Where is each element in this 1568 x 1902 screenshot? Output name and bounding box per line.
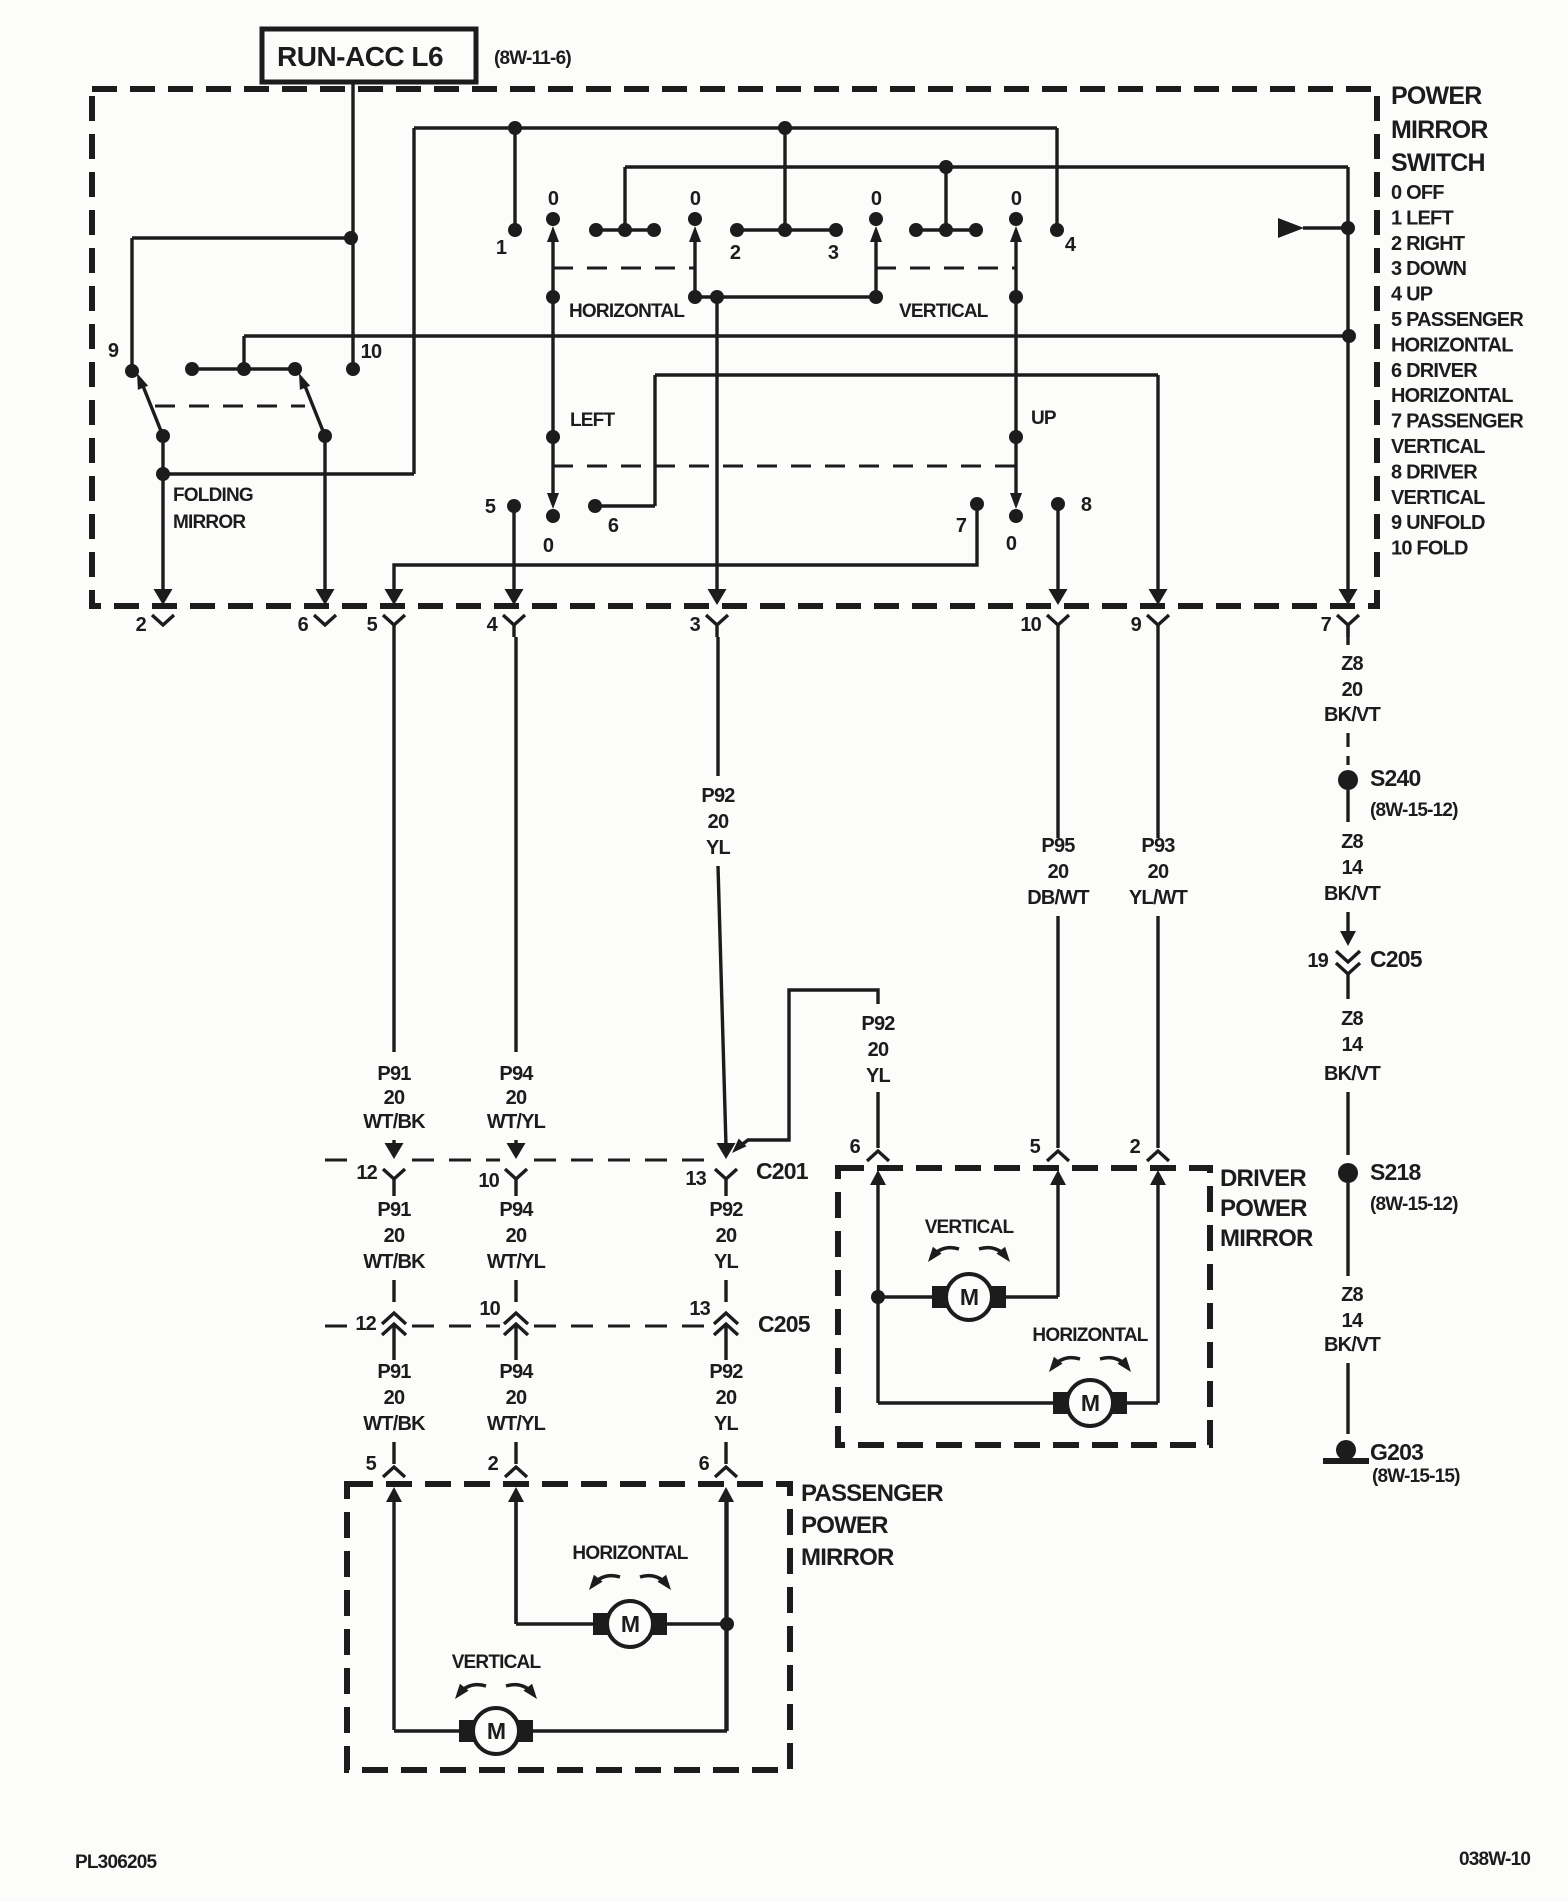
- svg-text:POWER: POWER: [801, 1512, 888, 1539]
- svg-text:DB/WT: DB/WT: [1027, 887, 1089, 909]
- svg-text:20: 20: [716, 1387, 737, 1409]
- svg-text:13: 13: [685, 1168, 706, 1190]
- svg-text:13: 13: [689, 1298, 710, 1320]
- svg-text:4: 4: [1065, 234, 1077, 256]
- svg-text:(8W-15-12): (8W-15-12): [1370, 800, 1458, 821]
- svg-text:1: 1: [496, 237, 507, 259]
- svg-text:YL: YL: [866, 1065, 891, 1087]
- svg-text:(8W-15-15): (8W-15-15): [1372, 1466, 1460, 1487]
- svg-text:P92: P92: [701, 785, 735, 807]
- svg-text:P94: P94: [499, 1361, 534, 1383]
- svg-text:20: 20: [506, 1387, 527, 1409]
- svg-text:M: M: [621, 1611, 639, 1637]
- svg-text:14: 14: [1342, 1310, 1364, 1332]
- svg-text:Z8: Z8: [1341, 1008, 1363, 1030]
- svg-text:10: 10: [361, 341, 382, 363]
- svg-text:LEFT: LEFT: [570, 410, 615, 431]
- svg-text:10 FOLD: 10 FOLD: [1391, 538, 1468, 560]
- svg-text:BK/VT: BK/VT: [1324, 704, 1381, 726]
- svg-text:DRIVER: DRIVER: [1220, 1165, 1306, 1192]
- svg-text:5: 5: [1030, 1136, 1041, 1158]
- svg-text:P92: P92: [709, 1361, 743, 1383]
- svg-text:P92: P92: [861, 1013, 895, 1035]
- svg-text:G203: G203: [1370, 1439, 1423, 1465]
- svg-text:VERTICAL: VERTICAL: [899, 301, 989, 322]
- svg-text:8 DRIVER: 8 DRIVER: [1391, 461, 1478, 483]
- svg-text:20: 20: [1342, 679, 1363, 701]
- svg-text:0 OFF: 0 OFF: [1391, 182, 1444, 204]
- svg-text:9: 9: [108, 340, 119, 362]
- svg-text:M: M: [960, 1284, 978, 1310]
- svg-text:20: 20: [384, 1225, 405, 1247]
- svg-text:8: 8: [1081, 494, 1092, 516]
- svg-text:6: 6: [608, 515, 619, 537]
- svg-text:UP: UP: [1031, 408, 1057, 429]
- svg-text:HORIZONTAL: HORIZONTAL: [1391, 334, 1513, 356]
- svg-text:WT/BK: WT/BK: [363, 1111, 426, 1133]
- svg-text:Z8: Z8: [1341, 1284, 1363, 1306]
- svg-text:HORIZONTAL: HORIZONTAL: [572, 1543, 688, 1564]
- svg-text:6: 6: [850, 1136, 861, 1158]
- svg-text:2: 2: [730, 242, 741, 264]
- svg-text:20: 20: [506, 1225, 527, 1247]
- svg-text:M: M: [487, 1718, 505, 1744]
- svg-text:14: 14: [1342, 857, 1364, 879]
- svg-text:HORIZONTAL: HORIZONTAL: [1032, 1325, 1148, 1346]
- svg-text:MIRROR: MIRROR: [173, 512, 246, 533]
- svg-text:2: 2: [136, 614, 147, 636]
- svg-text:FOLDING: FOLDING: [173, 485, 253, 506]
- svg-text:SWITCH: SWITCH: [1391, 149, 1485, 177]
- svg-text:M: M: [1081, 1390, 1099, 1416]
- svg-text:5: 5: [366, 1453, 377, 1475]
- svg-text:MIRROR: MIRROR: [801, 1544, 894, 1571]
- svg-text:3: 3: [690, 614, 701, 636]
- svg-text:5: 5: [367, 614, 378, 636]
- svg-text:C205: C205: [1370, 946, 1423, 972]
- svg-text:20: 20: [868, 1039, 889, 1061]
- svg-text:0: 0: [1011, 188, 1022, 210]
- svg-text:4: 4: [487, 614, 499, 636]
- svg-text:7: 7: [1321, 614, 1332, 636]
- svg-text:14: 14: [1342, 1034, 1364, 1056]
- svg-text:5 PASSENGER: 5 PASSENGER: [1391, 309, 1524, 331]
- svg-text:YL: YL: [714, 1251, 739, 1273]
- svg-text:S218: S218: [1370, 1159, 1422, 1185]
- svg-text:VERTICAL: VERTICAL: [1391, 436, 1485, 458]
- svg-text:20: 20: [1148, 861, 1169, 883]
- svg-text:P91: P91: [377, 1199, 411, 1221]
- svg-text:20: 20: [1048, 861, 1069, 883]
- svg-text:0: 0: [548, 188, 559, 210]
- svg-text:2 RIGHT: 2 RIGHT: [1391, 233, 1465, 255]
- svg-text:1 LEFT: 1 LEFT: [1391, 207, 1453, 229]
- svg-text:19: 19: [1307, 950, 1328, 972]
- svg-text:VERTICAL: VERTICAL: [452, 1652, 542, 1673]
- svg-text:10: 10: [478, 1170, 499, 1192]
- svg-text:5: 5: [485, 496, 496, 518]
- svg-text:20: 20: [716, 1225, 737, 1247]
- svg-text:WT/YL: WT/YL: [487, 1111, 546, 1133]
- svg-text:4 UP: 4 UP: [1391, 284, 1433, 306]
- svg-text:P94: P94: [499, 1063, 534, 1085]
- svg-text:YL/WT: YL/WT: [1129, 887, 1188, 909]
- svg-text:2: 2: [1130, 1136, 1141, 1158]
- svg-text:PL306205: PL306205: [75, 1852, 158, 1873]
- svg-text:20: 20: [708, 811, 729, 833]
- svg-text:YL: YL: [706, 837, 731, 859]
- svg-text:HORIZONTAL: HORIZONTAL: [1391, 385, 1513, 407]
- svg-text:9 UNFOLD: 9 UNFOLD: [1391, 512, 1485, 534]
- svg-text:BK/VT: BK/VT: [1324, 883, 1381, 905]
- svg-text:C201: C201: [756, 1158, 809, 1184]
- svg-text:7: 7: [956, 515, 967, 537]
- svg-text:6 DRIVER: 6 DRIVER: [1391, 360, 1478, 382]
- svg-text:P91: P91: [377, 1063, 411, 1085]
- svg-text:2: 2: [488, 1453, 499, 1475]
- svg-text:0: 0: [1006, 533, 1017, 555]
- svg-text:MIRROR: MIRROR: [1220, 1225, 1313, 1252]
- svg-text:10: 10: [1020, 614, 1041, 636]
- svg-text:0: 0: [690, 188, 701, 210]
- svg-text:6: 6: [699, 1453, 710, 1475]
- svg-text:WT/YL: WT/YL: [487, 1413, 546, 1435]
- svg-text:Z8: Z8: [1341, 653, 1363, 675]
- svg-text:(8W-11-6): (8W-11-6): [494, 48, 571, 69]
- svg-text:YL: YL: [714, 1413, 739, 1435]
- svg-text:20: 20: [506, 1087, 527, 1109]
- svg-text:9: 9: [1131, 614, 1142, 636]
- svg-text:RUN-ACC L6: RUN-ACC L6: [277, 41, 443, 72]
- svg-text:038W-10: 038W-10: [1459, 1849, 1530, 1870]
- svg-text:3: 3: [828, 242, 839, 264]
- svg-text:PASSENGER: PASSENGER: [801, 1480, 943, 1507]
- svg-text:P95: P95: [1041, 835, 1075, 857]
- svg-text:POWER: POWER: [1391, 82, 1482, 110]
- svg-text:P91: P91: [377, 1361, 411, 1383]
- svg-text:12: 12: [355, 1313, 376, 1335]
- svg-text:0: 0: [543, 535, 554, 557]
- svg-text:WT/YL: WT/YL: [487, 1251, 546, 1273]
- svg-text:WT/BK: WT/BK: [363, 1251, 426, 1273]
- svg-text:12: 12: [356, 1162, 377, 1184]
- svg-text:BK/VT: BK/VT: [1324, 1063, 1381, 1085]
- svg-text:HORIZONTAL: HORIZONTAL: [569, 301, 685, 322]
- svg-text:BK/VT: BK/VT: [1324, 1334, 1381, 1356]
- svg-text:P94: P94: [499, 1199, 534, 1221]
- svg-text:0: 0: [871, 188, 882, 210]
- svg-text:VERTICAL: VERTICAL: [925, 1217, 1015, 1238]
- svg-text:MIRROR: MIRROR: [1391, 116, 1488, 144]
- svg-text:P93: P93: [1141, 835, 1175, 857]
- svg-text:P92: P92: [709, 1199, 743, 1221]
- svg-text:20: 20: [384, 1387, 405, 1409]
- svg-text:POWER: POWER: [1220, 1195, 1307, 1222]
- svg-text:10: 10: [479, 1298, 500, 1320]
- svg-text:Z8: Z8: [1341, 831, 1363, 853]
- svg-text:VERTICAL: VERTICAL: [1391, 487, 1485, 509]
- svg-text:6: 6: [298, 614, 309, 636]
- svg-text:S240: S240: [1370, 765, 1421, 791]
- svg-text:C205: C205: [758, 1311, 811, 1337]
- svg-text:(8W-15-12): (8W-15-12): [1370, 1194, 1458, 1215]
- svg-text:7 PASSENGER: 7 PASSENGER: [1391, 411, 1524, 433]
- svg-text:3 DOWN: 3 DOWN: [1391, 258, 1467, 280]
- svg-text:WT/BK: WT/BK: [363, 1413, 426, 1435]
- svg-text:20: 20: [384, 1087, 405, 1109]
